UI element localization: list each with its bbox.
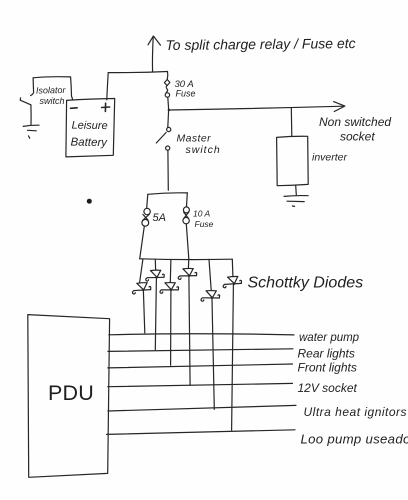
wire: drop to 30A fuse [166, 72, 169, 80]
wire bus to D5 [209, 259, 211, 290]
wire D2 to water pump line [143, 291, 144, 333]
battery B1 box [66, 99, 115, 157]
output line: rear lights [108, 349, 293, 352]
svg-text:switch: switch [186, 144, 221, 156]
svg-text:Battery: Battery [70, 137, 108, 150]
svg-text:Fuse: Fuse [176, 89, 196, 99]
wire: battery - riser to label box [72, 96, 73, 100]
svg-text:Fuse: Fuse [195, 219, 214, 229]
isolator switch label box [31, 77, 72, 96]
battery + terminal [102, 103, 110, 111]
svg-text:Schottky Diodes: Schottky Diodes [248, 275, 364, 292]
chassis ground left [23, 125, 39, 138]
PDU box [28, 315, 110, 478]
stray ink dot [87, 199, 92, 204]
inverter feed wire [290, 108, 293, 137]
isolator switch symbol SW1 [20, 98, 31, 125]
svg-text:PDU: PDU [48, 381, 94, 405]
svg-text:Loo pump useador: Loo pump useador [301, 432, 408, 447]
diode D3 [160, 282, 179, 293]
svg-text:10 A: 10 A [193, 209, 211, 219]
wire to non-switched socket with arrow [169, 102, 345, 112]
wire D6 to loo pump line [232, 285, 234, 430]
output line: loo pump [107, 430, 295, 435]
wire to 10A fuse [186, 193, 189, 207]
junction node [168, 109, 170, 111]
wire: battery + riser [107, 73, 108, 100]
wire bus to D3 [169, 260, 172, 283]
diode D6 [223, 276, 242, 288]
battery - terminal [71, 107, 78, 110]
diode D4 [178, 268, 196, 279]
svg-text:5A: 5A [153, 212, 166, 224]
wire to 5A fuse [147, 194, 148, 208]
wire bus corner to D6 [231, 259, 234, 276]
fuse F3 10A [183, 207, 189, 259]
svg-text:12V socket: 12V socket [298, 381, 358, 395]
svg-text:inverter: inverter [312, 152, 348, 164]
svg-text:Isolator: Isolator [36, 85, 67, 96]
wire bus to D4 [187, 259, 189, 269]
wire D3 to front lights line [170, 291, 172, 365]
svg-text:To split charge relay / Fuse e: To split charge relay / Fuse etc [165, 35, 355, 53]
fuse F2 5A [140, 208, 151, 258]
output line: water pump [109, 334, 294, 335]
diode D1 [146, 270, 164, 281]
wire D4 to 12V socket line [189, 277, 190, 386]
svg-text:Rear lights: Rear lights [298, 347, 355, 361]
bus wire above diodes [140, 258, 233, 261]
wire: top horizontal to 30A fuse [108, 72, 167, 73]
inverter box [277, 136, 309, 185]
svg-text:Leisure: Leisure [71, 120, 107, 133]
svg-text:Ultra heat ignitors: Ultra heat ignitors [304, 405, 408, 419]
ground under inverter [284, 186, 308, 207]
diode D2 [132, 282, 151, 294]
wire bus to D2 [140, 259, 143, 282]
output line: 12V socket [108, 383, 293, 386]
master switch SW2 [156, 111, 170, 191]
svg-text:water pump: water pump [299, 332, 360, 344]
svg-text:Master: Master [177, 133, 212, 145]
svg-text:Non switched: Non switched [319, 115, 391, 129]
diode D5 [201, 290, 220, 302]
svg-text:switch: switch [40, 96, 65, 106]
svg-text:Front lights: Front lights [298, 361, 357, 375]
svg-text:socket: socket [340, 130, 375, 144]
output line: ultra heat ignitors [108, 405, 296, 411]
output line: front lights [108, 364, 293, 368]
wire D1 to rear lights line [155, 278, 156, 349]
fuse F1 30A [164, 80, 170, 109]
wire bus to D1 [154, 259, 156, 269]
wire D5 to ultra heat line [212, 299, 214, 410]
splitter bar to fuses [148, 193, 188, 195]
arrow to split charge relay [148, 36, 161, 72]
